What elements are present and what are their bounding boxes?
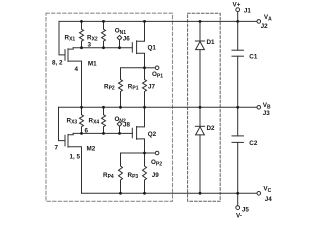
- svg-text:RX3: RX3: [67, 118, 78, 126]
- jumper J8 diamond: [117, 122, 122, 127]
- svg-text:6: 6: [85, 127, 89, 134]
- svg-text:RX1: RX1: [65, 34, 76, 42]
- junction mid rail M1 source: [80, 106, 83, 109]
- svg-text:D2: D2: [207, 125, 216, 132]
- svg-text:V+: V+: [233, 1, 241, 8]
- junction node3 J6: [118, 46, 121, 49]
- svg-text:D1: D1: [207, 39, 216, 46]
- node 6 rail: [73, 132, 132, 134]
- mid rail VB: [59, 106, 258, 108]
- resistor RP3: [143, 153, 147, 193]
- junction mid rail RP1: [143, 106, 146, 109]
- junction node6 J8: [118, 132, 121, 135]
- svg-text:V-: V-: [236, 212, 242, 219]
- svg-text:VA: VA: [264, 14, 272, 22]
- junction mid rail RX4: [102, 106, 105, 109]
- resistor RX3: [80, 107, 84, 133]
- diode dashed box: [188, 13, 221, 201]
- svg-text:7: 7: [55, 145, 59, 152]
- svg-text:RP1: RP1: [128, 83, 139, 91]
- bottom rail V-: [82, 192, 258, 194]
- resistor RX1: [80, 21, 84, 47]
- svg-text:Q2: Q2: [148, 131, 157, 138]
- svg-text:VB: VB: [263, 102, 271, 110]
- jumper J6 diamond: [117, 35, 122, 40]
- svg-text:RP3: RP3: [128, 172, 139, 180]
- capacitor C1: [232, 49, 243, 51]
- wire jumper J6 to node 3: [119, 40, 121, 48]
- resistor RX2: [102, 21, 106, 47]
- wire V+ feed through C1: [237, 11, 239, 50]
- diode D2: [199, 107, 201, 126]
- svg-text:J9: J9: [152, 172, 160, 179]
- svg-text:C2: C2: [249, 140, 258, 147]
- junction top rail RX2: [102, 20, 105, 23]
- junction node P2: [143, 152, 146, 155]
- resistor RP2: [119, 68, 145, 108]
- junction top rail V+: [236, 20, 239, 23]
- terminal J1 V+: [236, 8, 240, 12]
- junction node P1: [143, 66, 146, 69]
- svg-text:J5: J5: [242, 207, 250, 214]
- transistor Q1: [131, 43, 133, 53]
- svg-text:M2: M2: [87, 145, 96, 152]
- terminal J4 VC: [257, 192, 261, 196]
- svg-text:J6: J6: [123, 35, 131, 42]
- junction mid rail RP2: [119, 106, 122, 109]
- svg-text:Q1: Q1: [148, 44, 157, 51]
- svg-text:1, 5: 1, 5: [70, 154, 81, 161]
- terminal J2 VA: [257, 20, 261, 24]
- transistor M2: [64, 135, 66, 146]
- terminal P2: [155, 151, 159, 155]
- junction bottom rail V-: [236, 192, 239, 195]
- svg-text:J8: J8: [123, 122, 131, 129]
- junction mid rail C1: [236, 106, 239, 109]
- outer dashed box (test-circuit boundary): [46, 13, 173, 201]
- svg-text:M1: M1: [88, 60, 97, 67]
- wire left gate feed M1: [59, 21, 65, 55]
- svg-text:J4: J4: [265, 196, 273, 203]
- svg-text:OP1: OP1: [152, 71, 163, 79]
- junction top rail Q1 drain: [143, 20, 146, 23]
- wire stub to J5: [237, 193, 239, 206]
- transistor Q2: [131, 128, 133, 138]
- wire top rail V+: [59, 20, 257, 22]
- junction top rail RX1: [80, 20, 83, 23]
- svg-text:8, 2: 8, 2: [52, 59, 63, 66]
- svg-text:RP4: RP4: [103, 172, 114, 180]
- svg-text:RX4: RX4: [89, 118, 100, 126]
- svg-text:OP2: OP2: [151, 159, 162, 167]
- diode D1: [199, 21, 201, 41]
- svg-text:J1: J1: [244, 7, 252, 14]
- transistor M1: [64, 50, 66, 61]
- junction top rail D1: [199, 20, 202, 23]
- wire jumper J8 to node 6: [119, 126, 121, 133]
- svg-text:J3: J3: [263, 110, 271, 117]
- junction bottom rail RP4: [119, 192, 122, 195]
- junction node6 RX4: [102, 132, 105, 135]
- junction mid rail D2: [199, 106, 202, 109]
- junction node3 RX2: [102, 46, 105, 49]
- node 3 rail: [73, 47, 132, 49]
- wire left gate feed M2: [59, 107, 65, 140]
- svg-text:C1: C1: [249, 54, 258, 61]
- junction node3 RX1: [80, 46, 83, 49]
- svg-text:4: 4: [75, 66, 79, 73]
- resistor RX4: [102, 107, 106, 133]
- terminal J5 V-: [236, 206, 240, 210]
- capacitor C2: [237, 107, 239, 136]
- junction node6 RX3: [80, 132, 83, 135]
- svg-text:J2: J2: [261, 23, 269, 30]
- svg-text:3: 3: [88, 42, 92, 49]
- resistor RP4: [119, 153, 145, 193]
- terminal P1: [155, 66, 159, 70]
- resistor RP1: [143, 68, 147, 108]
- junction bottom rail D2: [199, 192, 202, 195]
- svg-text:J7: J7: [148, 83, 156, 90]
- node P1 wire to terminal: [145, 67, 156, 69]
- svg-text:VC: VC: [263, 186, 271, 194]
- terminal J3 VB: [257, 106, 261, 110]
- junction bottom rail RP3: [143, 192, 146, 195]
- svg-text:RP2: RP2: [104, 83, 115, 91]
- node P2 wire to terminal: [145, 152, 156, 154]
